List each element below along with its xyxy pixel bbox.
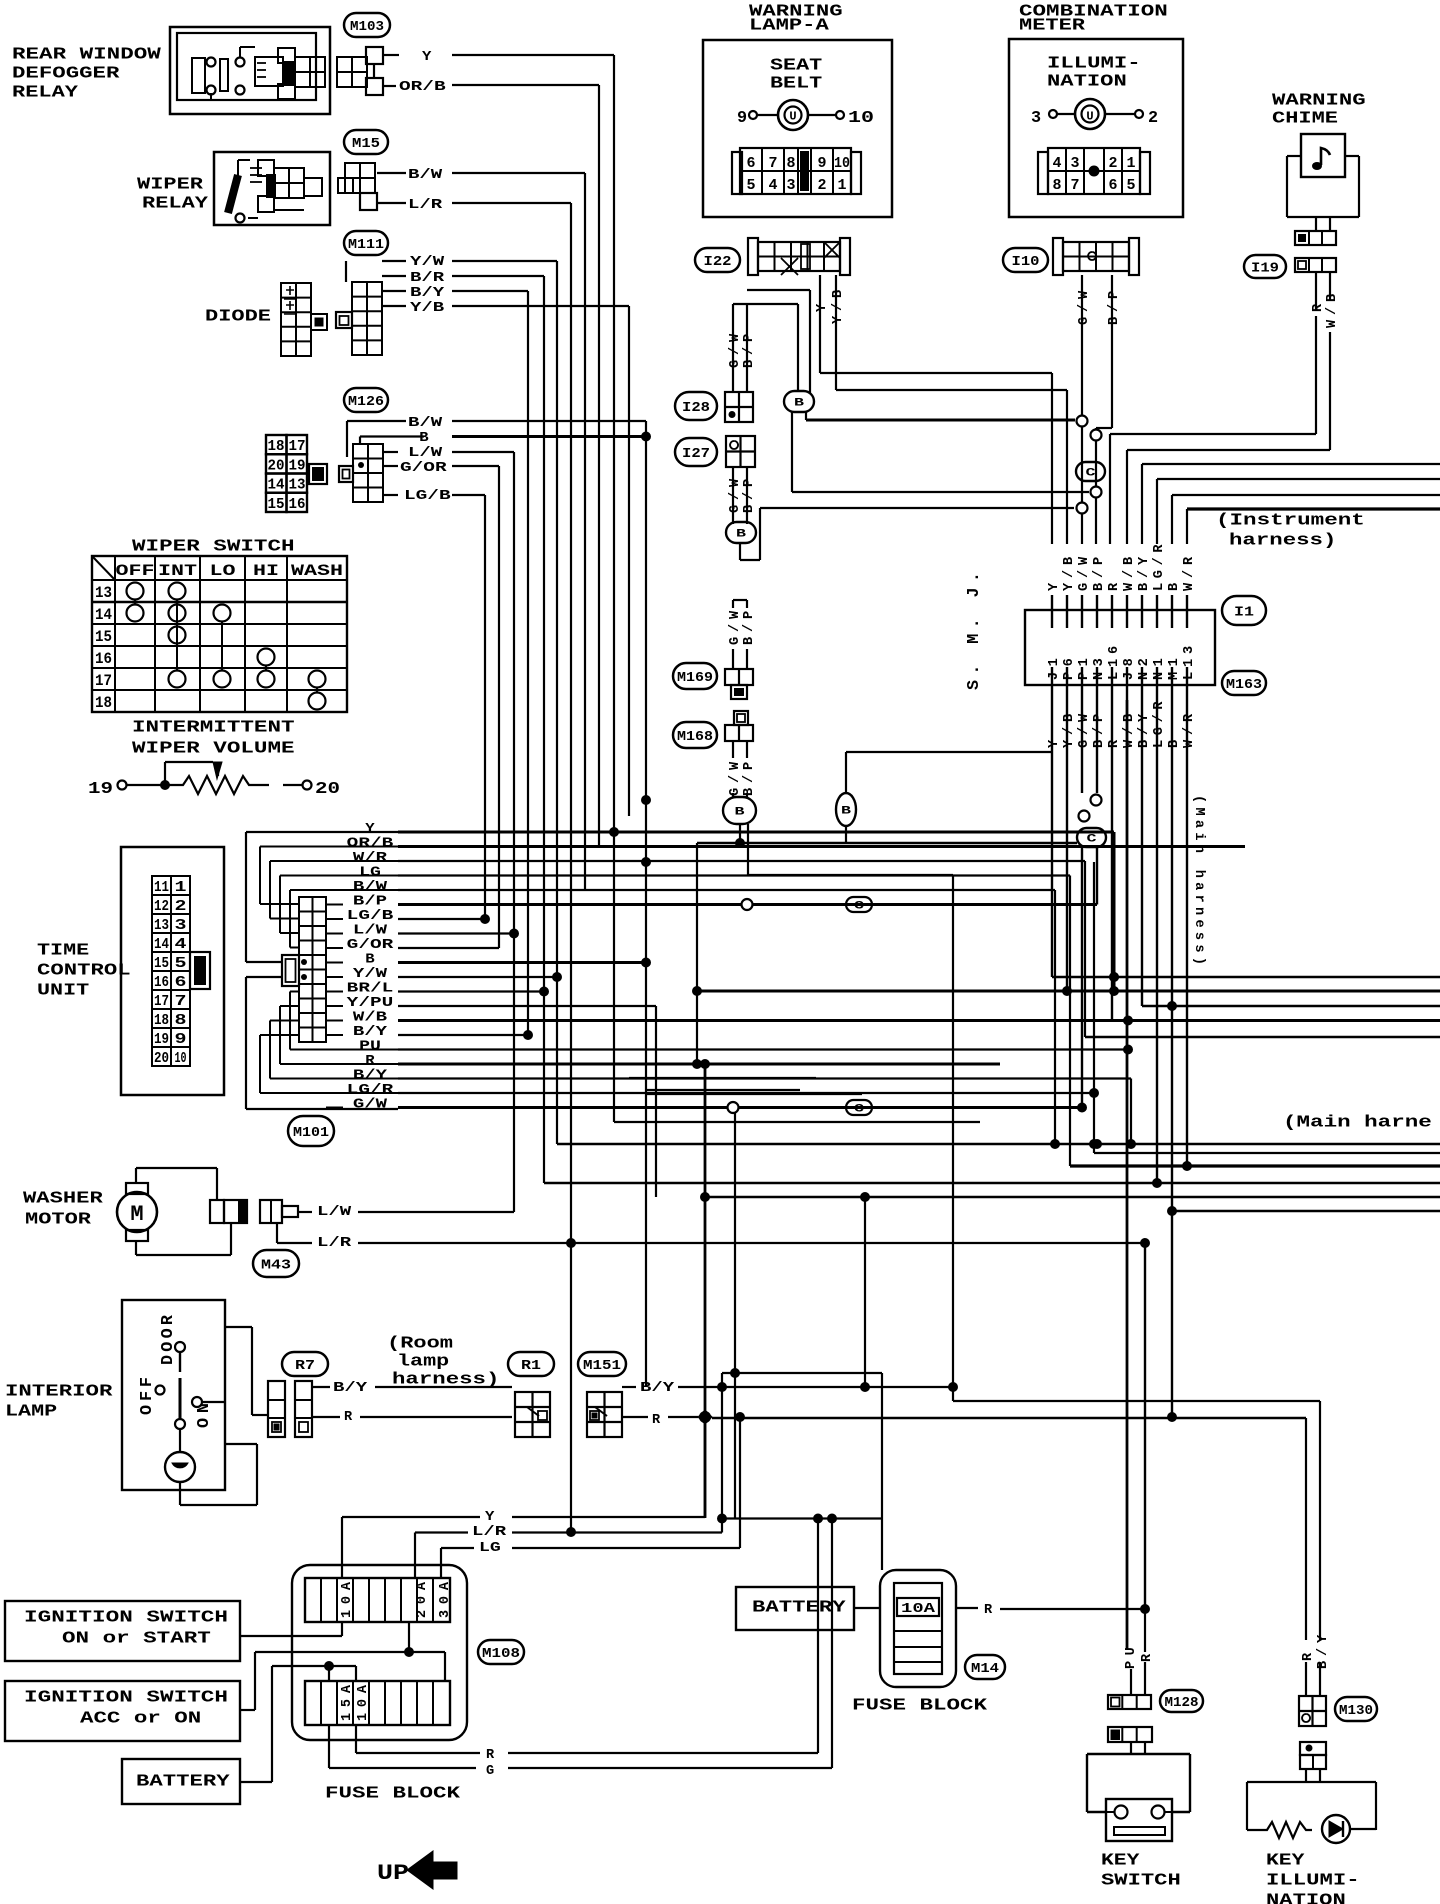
svg-text:BELT: BELT <box>770 74 822 93</box>
svg-text:10A: 10A <box>901 1602 936 1617</box>
svg-text:1: 1 <box>837 177 846 194</box>
svg-text:G/W: G/W <box>353 1098 388 1113</box>
svg-text:2: 2 <box>817 177 826 194</box>
svg-text:BATTERY: BATTERY <box>136 1772 231 1791</box>
svg-text:10A: 10A <box>356 1684 371 1721</box>
svg-text:FUSE BLOCK: FUSE BLOCK <box>852 1696 988 1715</box>
svg-text:(Room: (Room <box>387 1334 453 1353</box>
svg-text:17: 17 <box>154 994 169 1010</box>
svg-text:11: 11 <box>154 880 169 896</box>
svg-text:R: R <box>652 1413 661 1428</box>
svg-text:M163: M163 <box>1226 677 1262 693</box>
svg-text:W/R: W/R <box>1182 556 1197 591</box>
svg-text:TIME: TIME <box>37 941 89 960</box>
svg-text:BATTERY: BATTERY <box>752 1598 847 1617</box>
svg-text:W/B: W/B <box>1325 294 1340 328</box>
svg-text:OR/B: OR/B <box>399 80 446 95</box>
svg-text:WIPER VOLUME: WIPER VOLUME <box>132 739 295 758</box>
svg-text:LAMP: LAMP <box>5 1402 57 1421</box>
svg-text:WIPER SWITCH: WIPER SWITCH <box>132 537 295 556</box>
svg-text:RELAY: RELAY <box>12 83 79 102</box>
svg-text:Y/B: Y/B <box>1062 714 1077 748</box>
svg-text:Y/W: Y/W <box>353 967 388 982</box>
svg-text:M169: M169 <box>677 670 713 686</box>
svg-text:2: 2 <box>175 899 187 915</box>
svg-text:I27: I27 <box>682 446 710 462</box>
svg-text:18: 18 <box>268 438 285 455</box>
svg-text:W/R: W/R <box>1182 713 1197 748</box>
svg-text:SWITCH: SWITCH <box>1101 1871 1181 1890</box>
svg-text:B/W: B/W <box>408 168 443 183</box>
svg-text:NATION: NATION <box>1266 1891 1346 1904</box>
svg-text:5: 5 <box>175 956 187 972</box>
svg-text:7: 7 <box>768 155 777 172</box>
svg-text:R: R <box>984 1603 993 1618</box>
svg-text:B/P: B/P <box>353 895 387 910</box>
svg-text:B/R: B/R <box>410 271 445 286</box>
svg-text:7: 7 <box>1070 177 1079 194</box>
svg-text:B: B <box>736 528 747 540</box>
svg-text:LG/B: LG/B <box>404 489 451 504</box>
svg-text:B: B <box>1167 583 1182 591</box>
svg-text:G/W: G/W <box>728 610 743 645</box>
svg-text:6: 6 <box>746 155 755 172</box>
svg-text:B: B <box>841 805 852 817</box>
svg-text:W/B: W/B <box>1122 557 1137 591</box>
svg-text:KEY: KEY <box>1101 1851 1141 1870</box>
svg-text:ILLUMI-: ILLUMI- <box>1266 1871 1360 1890</box>
svg-text:14: 14 <box>154 937 169 953</box>
svg-text:17: 17 <box>289 438 306 455</box>
svg-text:Y: Y <box>1047 582 1062 591</box>
svg-text:MOTOR: MOTOR <box>25 1210 92 1229</box>
svg-text:B/P: B/P <box>742 479 757 513</box>
svg-text:8: 8 <box>175 1013 187 1029</box>
svg-text:9: 9 <box>175 1032 187 1048</box>
svg-text:R1: R1 <box>521 1358 541 1374</box>
svg-text:18: 18 <box>154 1013 169 1029</box>
svg-text:B/W: B/W <box>353 880 388 895</box>
svg-text:NATION: NATION <box>1047 72 1127 91</box>
svg-text:I19: I19 <box>1251 261 1279 277</box>
svg-text:M126: M126 <box>348 394 384 410</box>
svg-text:Y: Y <box>485 1510 495 1525</box>
svg-text:PU: PU <box>359 1040 381 1055</box>
svg-text:B/Y: B/Y <box>410 286 445 301</box>
svg-text:L/R: L/R <box>408 198 443 213</box>
svg-text:INTERMITTENT: INTERMITTENT <box>132 718 295 737</box>
svg-text:G/OR: G/OR <box>400 461 448 476</box>
svg-text:B: B <box>735 806 746 818</box>
svg-text:16: 16 <box>289 496 306 513</box>
svg-text:17: 17 <box>95 672 112 690</box>
svg-text:IGNITION SWITCH: IGNITION SWITCH <box>24 1688 228 1707</box>
svg-text:B/Y: B/Y <box>333 1381 368 1396</box>
svg-text:M108: M108 <box>482 1646 520 1662</box>
svg-text:CONTROL: CONTROL <box>37 961 131 980</box>
svg-text:W/B: W/B <box>1122 714 1137 748</box>
svg-text:19: 19 <box>289 457 306 474</box>
svg-text:13: 13 <box>154 918 169 934</box>
svg-text:G/W: G/W <box>728 761 743 796</box>
svg-text:M: M <box>130 1202 143 1227</box>
svg-text:3: 3 <box>786 177 795 194</box>
svg-text:R: R <box>1107 739 1122 748</box>
svg-text:I28: I28 <box>682 400 710 416</box>
svg-text:INTERIOR: INTERIOR <box>5 1382 114 1401</box>
svg-text:6: 6 <box>175 975 187 991</box>
svg-text:B/P: B/P <box>742 611 757 645</box>
svg-text:harness): harness) <box>1229 531 1336 550</box>
svg-text:WASH: WASH <box>291 562 343 580</box>
svg-text:G/W: G/W <box>728 478 743 513</box>
svg-text:4: 4 <box>1052 155 1061 172</box>
svg-text:B/Y: B/Y <box>353 1069 388 1084</box>
svg-text:B/P: B/P <box>1107 291 1122 325</box>
svg-text:(Instrument: (Instrument <box>1216 511 1365 530</box>
svg-text:14: 14 <box>268 477 285 494</box>
svg-text:B/Y: B/Y <box>1137 556 1152 591</box>
svg-text:B: B <box>365 953 374 968</box>
svg-text:M101: M101 <box>293 1125 329 1141</box>
svg-text:R: R <box>1107 582 1122 591</box>
svg-text:19: 19 <box>154 1032 169 1048</box>
svg-text:C: C <box>1086 467 1097 479</box>
svg-text:3: 3 <box>175 918 187 934</box>
svg-text:R: R <box>1140 1653 1155 1662</box>
svg-text:6: 6 <box>1108 177 1117 194</box>
svg-text:L/W: L/W <box>408 446 443 461</box>
svg-text:B/Y: B/Y <box>1137 713 1152 748</box>
svg-text:R: R <box>344 1410 353 1425</box>
svg-text:Y/B: Y/B <box>831 290 846 324</box>
svg-text:M15: M15 <box>352 136 380 152</box>
svg-text:SEAT: SEAT <box>770 56 822 75</box>
svg-text:LG: LG <box>479 1541 501 1556</box>
svg-text:10: 10 <box>175 1051 187 1067</box>
svg-text:Y/B: Y/B <box>410 301 444 316</box>
svg-text:L/W: L/W <box>353 924 388 939</box>
svg-text:UNIT: UNIT <box>37 981 89 1000</box>
svg-text:G/OR: G/OR <box>347 938 395 953</box>
svg-text:B: B <box>794 397 805 409</box>
svg-text:ON or START: ON or START <box>62 1629 211 1648</box>
svg-text:5: 5 <box>746 177 755 194</box>
svg-text:G: G <box>486 1764 494 1779</box>
svg-text:10A: 10A <box>340 1581 355 1618</box>
svg-text:I22: I22 <box>704 254 732 270</box>
svg-text:RELAY: RELAY <box>142 194 209 213</box>
svg-text:Y: Y <box>365 822 375 837</box>
svg-text:UP: UP <box>377 1861 409 1886</box>
svg-text:8: 8 <box>786 155 795 172</box>
svg-text:2: 2 <box>1108 155 1117 172</box>
svg-text:9: 9 <box>737 109 747 128</box>
svg-text:OR/B: OR/B <box>347 837 394 852</box>
svg-text:WARNING: WARNING <box>1272 91 1366 110</box>
svg-text:Y/PU: Y/PU <box>347 996 394 1011</box>
svg-text:U: U <box>1086 110 1093 124</box>
svg-text:5: 5 <box>1126 177 1135 194</box>
svg-text:ILLUMI-: ILLUMI- <box>1047 54 1141 73</box>
svg-text:I1: I1 <box>1234 605 1254 621</box>
svg-text:M14: M14 <box>971 1661 999 1677</box>
svg-text:FUSE BLOCK: FUSE BLOCK <box>325 1784 461 1803</box>
svg-text:B/P: B/P <box>1092 714 1107 748</box>
svg-text:B/Y: B/Y <box>353 1025 388 1040</box>
svg-text:L/R: L/R <box>472 1525 507 1540</box>
svg-text:B/P: B/P <box>1092 557 1107 591</box>
svg-text:7: 7 <box>175 994 187 1010</box>
svg-text:30A: 30A <box>438 1581 453 1618</box>
svg-text:10: 10 <box>848 109 874 128</box>
svg-text:B/Y: B/Y <box>1316 1634 1331 1669</box>
svg-text:LO: LO <box>210 562 236 580</box>
svg-text:M151: M151 <box>583 1358 621 1374</box>
svg-text:13: 13 <box>95 584 112 602</box>
svg-text:IGNITION SWITCH: IGNITION SWITCH <box>24 1608 228 1627</box>
svg-text:B: B <box>1167 740 1182 748</box>
svg-text:M128: M128 <box>1165 1695 1199 1711</box>
svg-text:W/B: W/B <box>353 1011 387 1026</box>
svg-text:20: 20 <box>315 780 340 799</box>
svg-text:19: 19 <box>88 780 113 799</box>
svg-text:M130: M130 <box>1339 1703 1373 1719</box>
svg-text:Y: Y <box>815 303 830 312</box>
svg-text:LG: LG <box>359 866 381 881</box>
svg-text:METER: METER <box>1019 16 1086 35</box>
svg-text:8: 8 <box>1052 177 1061 194</box>
svg-text:WIPER: WIPER <box>137 175 204 194</box>
svg-text:R: R <box>1311 303 1326 312</box>
svg-text:C: C <box>854 1103 865 1115</box>
svg-text:LG/R: LG/R <box>347 1083 395 1098</box>
svg-text:WASHER: WASHER <box>23 1189 104 1208</box>
svg-text:Y: Y <box>422 50 432 65</box>
svg-text:20A: 20A <box>415 1581 430 1618</box>
svg-text:20: 20 <box>154 1051 169 1067</box>
svg-text:LG/B: LG/B <box>347 909 394 924</box>
svg-text:2: 2 <box>1148 109 1158 128</box>
svg-text:15: 15 <box>95 628 112 646</box>
svg-text:1: 1 <box>175 880 187 896</box>
svg-text:20: 20 <box>268 457 285 474</box>
svg-text:9: 9 <box>817 155 826 172</box>
svg-text:B/W: B/W <box>408 416 443 431</box>
svg-text:R: R <box>365 1054 375 1069</box>
svg-text:B/Y: B/Y <box>640 1381 675 1396</box>
svg-text:(Main harne: (Main harne <box>1283 1113 1432 1132</box>
svg-text:R7: R7 <box>295 1358 315 1374</box>
svg-text:15: 15 <box>154 956 169 972</box>
svg-text:16: 16 <box>95 650 112 668</box>
svg-text:LAMP-A: LAMP-A <box>749 16 830 35</box>
svg-text:HI: HI <box>253 562 279 580</box>
svg-text:1: 1 <box>1126 155 1135 172</box>
svg-text:REAR WINDOW: REAR WINDOW <box>12 45 162 64</box>
svg-text:DEFOGGER: DEFOGGER <box>12 64 121 83</box>
svg-text:BR/L: BR/L <box>347 982 394 997</box>
svg-text:DIODE: DIODE <box>205 307 271 326</box>
svg-text:W/R: W/R <box>353 851 388 866</box>
svg-text:C: C <box>1087 833 1098 845</box>
svg-text:M103: M103 <box>350 19 384 35</box>
svg-text:R: R <box>486 1748 495 1763</box>
svg-text:16: 16 <box>154 975 169 991</box>
svg-text:M111: M111 <box>348 237 384 253</box>
svg-text:18: 18 <box>95 694 112 712</box>
svg-text:harness): harness) <box>392 1370 499 1389</box>
svg-text:L/W: L/W <box>317 1205 352 1220</box>
svg-text:13: 13 <box>289 477 306 494</box>
svg-text:C: C <box>854 900 865 912</box>
svg-text:M43: M43 <box>261 1258 291 1274</box>
svg-text:3: 3 <box>1070 155 1079 172</box>
svg-text:G/W: G/W <box>1077 713 1092 748</box>
svg-text:OFF: OFF <box>116 562 155 580</box>
svg-text:B/P: B/P <box>742 762 757 796</box>
svg-text:10: 10 <box>834 155 850 172</box>
svg-text:INT: INT <box>158 562 197 580</box>
svg-text:U: U <box>789 110 796 124</box>
svg-text:L/R: L/R <box>317 1236 352 1251</box>
svg-text:M168: M168 <box>677 729 713 745</box>
svg-text:CHIME: CHIME <box>1272 109 1338 128</box>
svg-text:3: 3 <box>1031 109 1041 128</box>
svg-text:G/W: G/W <box>1077 556 1092 591</box>
svg-text:L16: L16 <box>1107 646 1122 680</box>
svg-text:Y/B: Y/B <box>1062 557 1077 591</box>
svg-text:G/W: G/W <box>1077 290 1092 325</box>
svg-text:ACC or ON: ACC or ON <box>80 1709 201 1728</box>
svg-text:12: 12 <box>154 899 169 915</box>
svg-text:OFF: OFF <box>138 1377 157 1415</box>
svg-text:KEY: KEY <box>1266 1851 1306 1870</box>
svg-text:G/W: G/W <box>728 333 743 368</box>
svg-text:L13: L13 <box>1182 646 1197 680</box>
svg-text:Y/W: Y/W <box>410 255 445 270</box>
svg-text:lamp: lamp <box>397 1352 449 1371</box>
svg-text:R: R <box>1301 1652 1316 1661</box>
svg-text:15A: 15A <box>340 1684 355 1721</box>
svg-text:I10: I10 <box>1012 254 1040 270</box>
svg-text:B/P: B/P <box>742 334 757 368</box>
svg-text:4: 4 <box>768 177 777 194</box>
svg-text:4: 4 <box>175 937 187 953</box>
svg-text:Y: Y <box>1047 739 1062 748</box>
svg-text:B: B <box>419 431 428 446</box>
svg-text:14: 14 <box>95 606 112 624</box>
svg-text:15: 15 <box>268 496 285 513</box>
